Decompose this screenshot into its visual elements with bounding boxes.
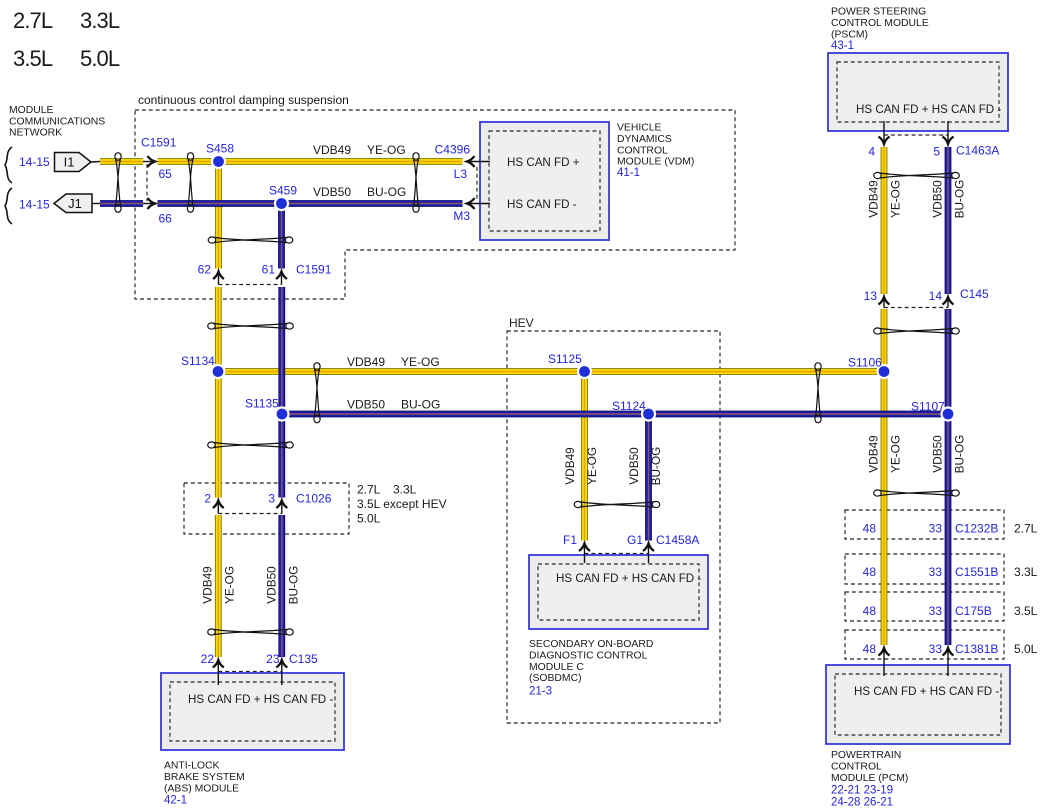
svg-text:65: 65 — [159, 167, 173, 181]
svg-text:3.3L: 3.3L — [1014, 565, 1038, 579]
svg-text:48: 48 — [863, 642, 877, 656]
wire VDB50 BU-OG: S1135 to S1107 bus — [282, 411, 948, 418]
svg-text:S1106: S1106 — [848, 356, 882, 370]
svg-text:POWERTRAIN: POWERTRAIN — [831, 750, 901, 761]
svg-text:3: 3 — [268, 492, 275, 506]
arrow VDM pin M3 — [467, 198, 490, 209]
svg-text:23: 23 — [266, 652, 280, 666]
arrow C145 pin 14 — [943, 297, 954, 308]
connector C135 link line — [218, 671, 281, 673]
svg-text:MODULE C: MODULE C — [529, 662, 584, 673]
svg-text:3.5L except HEV: 3.5L except HEV — [357, 497, 447, 511]
svg-text:VDB50: VDB50 — [931, 435, 945, 473]
connector C1591 (62/61) link line — [219, 284, 282, 286]
svg-text:HS CAN FD + HS CAN FD -: HS CAN FD + HS CAN FD - — [856, 103, 1001, 116]
svg-text:5.0L: 5.0L — [1014, 642, 1038, 656]
off-page connector I1 — [55, 153, 92, 172]
svg-text:VDB49: VDB49 — [867, 435, 881, 472]
svg-text:21-3: 21-3 — [529, 686, 552, 698]
svg-text:S1125: S1125 — [548, 352, 582, 366]
arrow C1026 pin 3 — [276, 501, 287, 514]
svg-text:48: 48 — [863, 604, 877, 618]
svg-text:HS CAN FD + HS CAN FD -: HS CAN FD + HS CAN FD - — [188, 693, 333, 706]
svg-text:G1: G1 — [627, 533, 643, 547]
svg-text:C1591: C1591 — [141, 136, 177, 150]
svg-text:3.5L: 3.5L — [1014, 604, 1038, 618]
svg-text:CONTROL MODULE: CONTROL MODULE — [831, 18, 929, 29]
svg-text:J1: J1 — [68, 196, 82, 211]
svg-text:33: 33 — [929, 642, 943, 656]
svg-text:66: 66 — [159, 212, 173, 226]
splice S1106 — [876, 364, 891, 379]
svg-text:48: 48 — [863, 565, 877, 579]
wire VDB49 YE-OG: C1026 to ABS C135 pin 22 — [215, 515, 222, 657]
svg-text:C1551B: C1551B — [955, 565, 998, 579]
svg-text:4: 4 — [868, 145, 875, 159]
connector C1463A link line — [884, 134, 948, 136]
wire VDB49 YE-OG: C1591 pin 62 to C1026 pin 2 (through S1134) — [215, 287, 222, 498]
svg-text:C4396: C4396 — [435, 143, 471, 157]
wire stub I1 to harness — [91, 161, 100, 164]
svg-text:2.7L: 2.7L — [1014, 522, 1038, 536]
brace for off-page connector J1 — [5, 188, 12, 224]
svg-text:13: 13 — [864, 289, 878, 303]
arrow PCM pin 48 — [879, 648, 890, 676]
svg-text:C145: C145 — [960, 287, 989, 301]
arrow C1591 pin 62 — [213, 272, 224, 285]
svg-text:YE-OG: YE-OG — [401, 355, 440, 369]
svg-text:HS CAN FD + HS CAN FD -: HS CAN FD + HS CAN FD - — [556, 572, 701, 585]
wire VDB49 YE-OG: S1125 down to SOBDMC pin F1 — [581, 372, 588, 541]
twisted pair symbol (bus right) — [815, 363, 821, 423]
svg-text:14: 14 — [929, 289, 943, 303]
svg-text:C1232B: C1232B — [955, 522, 998, 536]
svg-text:2.7L: 2.7L — [13, 8, 53, 33]
svg-text:14-15: 14-15 — [19, 198, 50, 212]
brace for off-page connector I1 — [5, 147, 12, 183]
dashed box HEV — [507, 331, 720, 723]
module box U1 VDM (Vehicle Dynamics Control Module) — [480, 122, 609, 240]
engine applicability note at C1026 — [357, 483, 447, 526]
svg-text:YE-OG: YE-OG — [367, 143, 406, 157]
splice S1125 — [577, 364, 592, 379]
svg-text:33: 33 — [929, 604, 943, 618]
svg-text:24-28 26-21: 24-28 26-21 — [831, 797, 893, 809]
svg-text:33: 33 — [929, 565, 943, 579]
wire VDB50 BU-OG: S1124 down to SOBDMC pin G1 — [645, 414, 652, 541]
module box SOBDMC (Secondary On-Board Diagnostic Control Module C) — [529, 555, 708, 629]
svg-text:VDB50: VDB50 — [931, 180, 945, 218]
wire VDB49 YE-OG: C1591 to VDM C4396 — [158, 158, 463, 165]
wire VDB50 BU-OG: C1591 pin 61 to C1026 pin 3 (through S1135) — [278, 287, 285, 498]
wire VDB50 BU-OG: C145 to PCM pin 33 (through S1107) — [945, 309, 952, 645]
svg-text:VDB49: VDB49 — [313, 143, 351, 157]
arrow PSCM pin 4 — [879, 121, 890, 144]
svg-text:(ABS) MODULE: (ABS) MODULE — [164, 783, 239, 794]
label PCM module name — [831, 750, 908, 784]
svg-text:VDB50: VDB50 — [627, 447, 641, 485]
svg-text:VDB49: VDB49 — [563, 447, 577, 484]
splice S459 — [274, 196, 289, 211]
svg-text:L3: L3 — [454, 167, 468, 181]
twisted pair symbol (above ABS C135) — [208, 629, 294, 635]
twisted pair symbol (I1/J1 leads) — [115, 153, 121, 213]
wire VDB50 BU-OG: C1026 to ABS C135 pin 23 — [278, 515, 285, 657]
svg-text:YE-OG: YE-OG — [585, 447, 599, 485]
wire VDB50 BU-OG: PSCM pin 5 to C145 pin 14 — [945, 147, 952, 294]
svg-text:DYNAMICS: DYNAMICS — [617, 134, 672, 145]
dashed connector box C1026 — [184, 483, 349, 534]
svg-text:C135: C135 — [289, 652, 318, 666]
svg-text:5: 5 — [933, 145, 940, 159]
svg-text:CONTROL: CONTROL — [831, 761, 882, 772]
svg-text:continuous control damping sus: continuous control damping suspension — [138, 93, 349, 107]
wire stub J1 to harness — [92, 203, 100, 205]
svg-text:MODULE (PCM): MODULE (PCM) — [831, 773, 908, 784]
splice S1107 — [940, 406, 955, 421]
svg-text:VDB50: VDB50 — [347, 398, 385, 412]
twisted pair symbol (above SOBDMC) — [574, 501, 660, 507]
svg-text:41-1: 41-1 — [617, 167, 640, 179]
svg-text:62: 62 — [198, 263, 212, 277]
svg-text:S1134: S1134 — [181, 354, 215, 368]
svg-text:ANTI-LOCK: ANTI-LOCK — [164, 761, 219, 772]
svg-text:33: 33 — [929, 522, 943, 536]
off-page connector J1 — [54, 194, 92, 213]
dashed connector box C1381B (5.0L) — [845, 630, 1004, 659]
svg-text:HS CAN FD +: HS CAN FD + — [507, 156, 580, 169]
label PSCM module name — [831, 7, 929, 41]
svg-text:M3: M3 — [453, 209, 470, 223]
svg-text:3.5L: 3.5L — [13, 46, 53, 71]
svg-text:C1026: C1026 — [296, 492, 332, 506]
arrow C1026 pin 2 — [213, 501, 224, 514]
twisted pair symbol (bus left) — [314, 363, 320, 423]
svg-text:5.0L: 5.0L — [80, 46, 120, 71]
svg-text:HEV: HEV — [509, 316, 534, 330]
splice S1134 — [210, 364, 225, 379]
svg-text:42-1: 42-1 — [164, 795, 187, 807]
arrow SOBDMC pin G1 — [643, 544, 654, 564]
svg-text:S459: S459 — [269, 184, 297, 198]
svg-text:F1: F1 — [563, 533, 577, 547]
arrow into C1591 pin 66 — [143, 198, 155, 209]
svg-text:COMMUNICATIONS: COMMUNICATIONS — [9, 116, 105, 127]
svg-text:YE-OG: YE-OG — [223, 566, 237, 604]
svg-text:YE-OG: YE-OG — [889, 435, 903, 473]
twisted pair symbol (before VDM) — [413, 153, 419, 213]
svg-text:HS CAN FD -: HS CAN FD - — [507, 198, 577, 211]
splice S458 — [211, 154, 226, 169]
svg-text:S1107: S1107 — [911, 400, 945, 414]
svg-text:YE-OG: YE-OG — [889, 180, 903, 218]
svg-text:14-15: 14-15 — [19, 155, 50, 169]
svg-text:VDB49: VDB49 — [867, 180, 881, 217]
arrow C1591 pin 61 — [276, 272, 287, 285]
wire VDB49 YE-OG: I1 to C1591 — [100, 158, 143, 165]
svg-text:C1458A: C1458A — [656, 533, 699, 547]
arrow VDM pin L3 — [467, 156, 490, 167]
svg-text:C175B: C175B — [955, 604, 992, 618]
twisted pair symbol (above C1232B) — [874, 490, 960, 496]
svg-text:BU-OG: BU-OG — [649, 447, 663, 486]
twisted pair symbol (below C145) — [874, 328, 960, 334]
arrow ABS C135 pin 22 — [213, 660, 224, 685]
svg-text:SECONDARY ON-BOARD: SECONDARY ON-BOARD — [529, 639, 653, 650]
svg-text:CONTROL: CONTROL — [617, 145, 668, 156]
connector C1591 link line — [146, 164, 148, 201]
twisted pair symbol (below PSCM) — [874, 172, 960, 178]
svg-text:(SOBDMC): (SOBDMC) — [529, 673, 582, 684]
label VDM module name — [617, 123, 694, 168]
wire VDB49 YE-OG: S1134 to S1106 bus — [218, 368, 884, 375]
svg-text:VEHICLE: VEHICLE — [617, 123, 662, 134]
svg-text:C1463A: C1463A — [956, 144, 999, 158]
wire VDB49 YE-OG: PSCM pin 4 to C145 pin 13 — [881, 147, 888, 294]
svg-text:VDB49: VDB49 — [347, 355, 385, 369]
wire VDB50 BU-OG: J1 to C1591 — [100, 200, 143, 207]
wire VDB49 YE-OG: C145 to PCM pin 48 (through S1106) — [881, 309, 888, 645]
svg-text:VDB50: VDB50 — [313, 185, 351, 199]
svg-text:3.3L: 3.3L — [80, 8, 120, 33]
twisted pair symbol (below S1135) — [208, 442, 294, 448]
svg-text:HS CAN FD + HS CAN FD -: HS CAN FD + HS CAN FD - — [854, 685, 999, 698]
module box PCM (Powertrain Control Module) — [826, 665, 1010, 744]
dashed connector box C1232B (2.7L) — [845, 510, 1004, 539]
arrow into C1591 pin 65 — [143, 156, 155, 167]
svg-text:POWER STEERING: POWER STEERING — [831, 7, 926, 18]
svg-text:C1381B: C1381B — [955, 642, 998, 656]
header engine variants — [13, 8, 120, 71]
arrow PSCM pin 5 — [943, 121, 954, 144]
module box ABS (Anti-Lock Brake System Module) — [161, 673, 344, 750]
svg-text:VDB50: VDB50 — [265, 566, 279, 604]
twisted pair symbol (below S458/S459) — [208, 237, 293, 243]
label MODULE COMMUNICATIONS NETWORK — [9, 105, 105, 139]
connector C1458A link line — [585, 553, 649, 555]
dashed harness box: continuous control damping suspension — [135, 110, 735, 299]
svg-text:NETWORK: NETWORK — [9, 128, 62, 139]
svg-text:BU-OG: BU-OG — [953, 180, 967, 219]
svg-text:43-1: 43-1 — [831, 40, 854, 52]
svg-text:BU-OG: BU-OG — [401, 398, 440, 412]
svg-text:61: 61 — [262, 263, 276, 277]
wire VDB49 YE-OG: S458 down to C1591 pin 62 — [215, 162, 222, 269]
connector C4396 link line — [476, 167, 478, 199]
svg-text:BU-OG: BU-OG — [287, 566, 301, 605]
svg-text:BRAKE SYSTEM: BRAKE SYSTEM — [164, 772, 245, 783]
splice S1124 — [641, 406, 656, 421]
svg-text:S1124: S1124 — [612, 399, 646, 413]
svg-text:5.0L: 5.0L — [357, 512, 381, 526]
wire VDB50 BU-OG: S459 down to C1591 pin 61 — [278, 204, 285, 269]
label ABS module name — [164, 761, 245, 795]
svg-text:S1135: S1135 — [245, 397, 279, 411]
svg-text:(PSCM): (PSCM) — [831, 29, 868, 40]
svg-text:BU-OG: BU-OG — [953, 435, 967, 474]
svg-text:48: 48 — [863, 522, 877, 536]
svg-text:3.3L: 3.3L — [393, 483, 417, 497]
module box PSCM (Power Steering Control Module) — [828, 53, 1008, 131]
svg-text:2: 2 — [204, 492, 211, 506]
svg-text:BU-OG: BU-OG — [367, 185, 406, 199]
twisted pair symbol (below C1591 62/61) — [208, 323, 294, 329]
svg-text:22: 22 — [201, 652, 215, 666]
connector C145 link line — [884, 307, 948, 309]
svg-text:VDB49: VDB49 — [201, 566, 215, 603]
svg-text:S458: S458 — [206, 142, 234, 156]
svg-text:I1: I1 — [64, 155, 75, 170]
arrow ABS C135 pin 23 — [276, 660, 287, 685]
arrow SOBDMC pin F1 — [579, 544, 590, 564]
splice S1135 — [274, 406, 289, 421]
dashed connector box C1551B (3.3L) — [845, 554, 1004, 584]
svg-text:MODULE: MODULE — [9, 105, 54, 116]
svg-text:C1591: C1591 — [296, 263, 332, 277]
svg-text:DIAGNOSTIC CONTROL: DIAGNOSTIC CONTROL — [529, 650, 648, 661]
connector C1026 link line — [218, 513, 281, 515]
svg-text:2.7L: 2.7L — [357, 483, 381, 497]
svg-text:22-21 23-19: 22-21 23-19 — [831, 785, 893, 797]
label SOBDMC module name — [529, 639, 653, 684]
wire VDB50 BU-OG: C1591 to VDM M3 — [158, 200, 463, 207]
dashed connector box C175B (3.5L) — [845, 592, 1004, 621]
arrow PCM pin 33 — [943, 648, 954, 676]
twisted pair symbol (after C1591) — [187, 153, 193, 213]
arrow C145 pin 13 — [879, 297, 890, 308]
